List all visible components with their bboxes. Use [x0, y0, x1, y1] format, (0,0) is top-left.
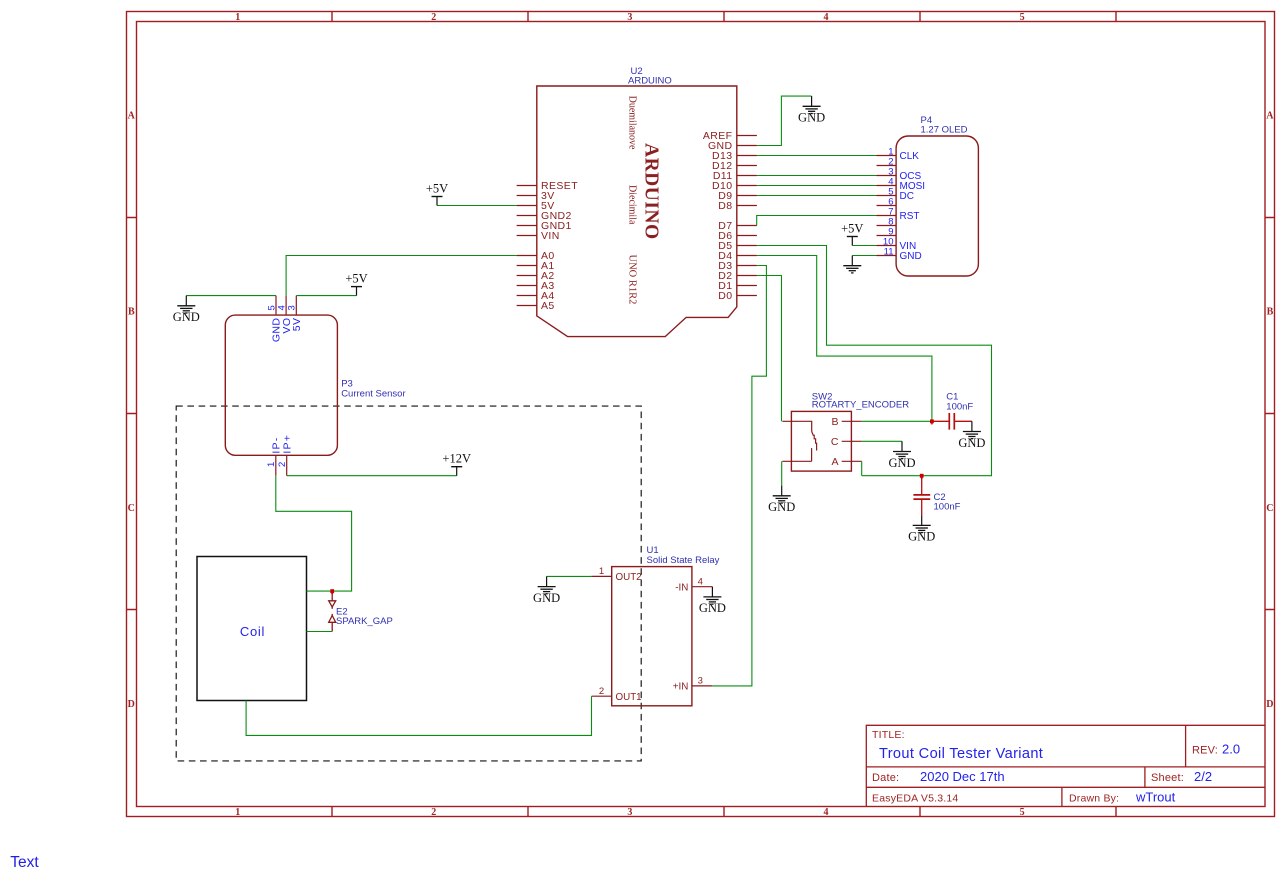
svg-text:wTrout: wTrout — [1135, 790, 1176, 805]
svg-text:Sheet:: Sheet: — [1151, 772, 1184, 784]
ground (U1 -IN) — [703, 587, 721, 604]
svg-text:C: C — [128, 503, 135, 514]
wire SW2 B to C1 junction — [862, 420, 932, 422]
wire SW2 A down to D5 net — [861, 461, 863, 475]
svg-text:+IN: +IN — [673, 682, 689, 693]
svg-text:5: 5 — [1020, 12, 1025, 23]
ground (C2) — [913, 515, 931, 532]
svg-text:4: 4 — [824, 12, 829, 23]
svg-text:+5V: +5V — [841, 222, 863, 236]
power +5V (P4 VIN) — [847, 237, 858, 246]
svg-text:2: 2 — [431, 12, 436, 23]
svg-text:1: 1 — [235, 12, 240, 23]
svg-text:5: 5 — [1020, 807, 1025, 818]
svg-text:1: 1 — [599, 566, 604, 577]
svg-text:CLK: CLK — [900, 151, 920, 162]
svg-text:IP+: IP+ — [281, 434, 293, 454]
svg-text:REV:: REV: — [1192, 745, 1218, 757]
svg-text:1: 1 — [266, 462, 277, 467]
svg-text:Current Sensor: Current Sensor — [341, 389, 405, 400]
wire U2 D7 to P4 pin 7 RST — [757, 216, 877, 226]
svg-text:Diecimila: Diecimila — [627, 185, 638, 225]
svg-text:2: 2 — [431, 807, 436, 818]
svg-text:11: 11 — [884, 247, 894, 258]
wire E2 bottom to Coil — [307, 631, 333, 633]
title block — [866, 725, 1265, 806]
wire U2 D4 to SW2 B net — [757, 256, 932, 422]
svg-text:D: D — [1266, 699, 1273, 710]
junction C1 node — [930, 419, 934, 423]
svg-text:Coil: Coil — [240, 624, 265, 639]
wire P4 pin 10 VIN to +5V — [852, 245, 876, 247]
wire Coil bottom to U1 OUT1 — [246, 696, 591, 735]
wire U2 D5 to SW2 A net — [757, 246, 992, 476]
svg-text:3: 3 — [627, 807, 632, 818]
wire P4 pin 11 GND to ground — [852, 255, 876, 257]
svg-text:D: D — [128, 699, 135, 710]
svg-text:Date:: Date: — [872, 772, 899, 784]
svg-text:1.27 OLED: 1.27 OLED — [921, 125, 968, 136]
svg-text:Trout Coil Tester Variant: Trout Coil Tester Variant — [879, 746, 1043, 762]
svg-text:Drawn By:: Drawn By: — [1069, 793, 1119, 805]
wire SW2 A-side to GND — [781, 461, 783, 485]
svg-text:UNO R1R2: UNO R1R2 — [627, 255, 638, 305]
svg-text:+5V: +5V — [345, 272, 367, 286]
rotary encoder SW2 — [782, 391, 909, 471]
svg-text:SPARK_GAP: SPARK_GAP — [336, 616, 393, 627]
wire U1 OUT2 to GND — [547, 575, 592, 577]
wire P3 pin 2 to +12V — [287, 475, 457, 477]
svg-text:2: 2 — [277, 462, 288, 467]
svg-text:-IN: -IN — [675, 582, 688, 593]
svg-text:2/2: 2/2 — [1194, 769, 1212, 784]
svg-text:1: 1 — [235, 807, 240, 818]
svg-text:DC: DC — [900, 191, 914, 202]
svg-text:C: C — [831, 436, 839, 448]
wire +5V to U2 pin 5V — [437, 205, 517, 207]
svg-text:GND: GND — [699, 601, 726, 615]
svg-text:100nF: 100nF — [934, 502, 961, 513]
svg-text:2020 Dec 17th: 2020 Dec 17th — [920, 769, 1005, 784]
svg-text:A: A — [831, 456, 838, 468]
svg-text:B: B — [128, 307, 135, 318]
svg-text:ARDUINO: ARDUINO — [628, 76, 672, 87]
wire U2 D2 to SW2 common B side — [757, 276, 782, 422]
wire U2 D9 to P4 pin 5 DC — [757, 195, 877, 197]
wire U2 A0 to P3 pin 4 (VO) — [286, 256, 516, 296]
svg-text:+5V: +5V — [426, 182, 448, 196]
svg-text:GND: GND — [908, 530, 935, 544]
svg-text:GND: GND — [958, 436, 985, 450]
svg-text:Text: Text — [10, 854, 39, 871]
power +5V (U2 5V) — [432, 197, 443, 206]
ground (SW2 A-side) — [773, 486, 791, 503]
wire U2 D10 to P4 pin 4 MOSI — [757, 185, 877, 187]
svg-text:GND: GND — [173, 310, 200, 324]
coil block (Coil) — [197, 557, 307, 701]
svg-text:100nF: 100nF — [946, 401, 973, 412]
svg-text:OUT1: OUT1 — [616, 692, 642, 703]
relay U1 Solid State Relay — [592, 545, 720, 706]
wire P3 pin 1 to spark gap node — [276, 476, 352, 591]
svg-text:ROTARTY_ENCODER: ROTARTY_ENCODER — [812, 400, 909, 411]
svg-text:Solid State Relay: Solid State Relay — [647, 555, 720, 566]
microcontroller U2 ARDUINO — [517, 66, 757, 337]
svg-text:+12V: +12V — [442, 452, 471, 466]
svg-text:3: 3 — [287, 305, 298, 310]
svg-text:EasyEDA V5.3.14: EasyEDA V5.3.14 — [872, 793, 958, 805]
svg-text:A5: A5 — [541, 300, 555, 312]
power +12V (P3 IP+) — [451, 467, 462, 476]
svg-text:TITLE:: TITLE: — [872, 729, 905, 741]
svg-text:A: A — [128, 111, 136, 122]
svg-text:2.0: 2.0 — [1222, 742, 1240, 757]
junction C2 node — [920, 474, 924, 478]
svg-text:VIN: VIN — [541, 230, 560, 242]
ground (U2 GND) — [803, 96, 821, 113]
power +5V (P3) — [351, 287, 362, 296]
svg-text:GND: GND — [533, 591, 560, 605]
wire P3 pin 3 to +5V — [296, 295, 356, 297]
ground (P4 pin 11) — [843, 256, 861, 273]
svg-text:ARDUINO: ARDUINO — [641, 143, 662, 240]
svg-text:RST: RST — [900, 211, 920, 222]
capacitor C1 100nF — [932, 392, 974, 430]
connector P3 Current Sensor — [225, 296, 405, 476]
svg-text:2: 2 — [599, 686, 604, 697]
dashed enclosure box — [176, 406, 641, 761]
svg-text:C: C — [1266, 503, 1273, 514]
ground (SW2 C) — [893, 441, 911, 458]
svg-text:GND: GND — [768, 500, 795, 514]
svg-text:B: B — [1267, 307, 1274, 318]
capacitor C2 100nF — [913, 476, 960, 516]
wire U2 GND to ground — [757, 96, 812, 145]
wire U2 D11 to P4 pin 3 OCS — [757, 175, 877, 177]
wire U2 D13 to P4 pin 1 CLK — [757, 155, 877, 157]
svg-text:D8: D8 — [718, 200, 732, 212]
svg-text:OUT2: OUT2 — [616, 572, 642, 583]
svg-text:A: A — [1266, 111, 1274, 122]
svg-text:D0: D0 — [718, 290, 732, 302]
svg-text:5V: 5V — [291, 318, 303, 332]
svg-text:3: 3 — [698, 676, 703, 687]
svg-text:3: 3 — [627, 12, 632, 23]
connector P4 1.27 OLED — [877, 115, 979, 276]
svg-text:B: B — [831, 416, 838, 428]
wire U2 D3 to U1 +IN — [712, 266, 766, 686]
junction E2 top node — [330, 589, 334, 593]
svg-text:GND: GND — [798, 111, 825, 125]
ground (C1) — [963, 421, 981, 438]
wire SW2 C to GND — [862, 440, 902, 442]
svg-text:4: 4 — [824, 807, 829, 818]
svg-text:Duemilanove: Duemilanove — [627, 96, 638, 150]
ground (U1 OUT2) — [538, 576, 556, 593]
svg-text:GND: GND — [900, 251, 922, 262]
svg-text:4: 4 — [698, 577, 703, 588]
spark gap E2 — [329, 591, 393, 631]
svg-text:GND: GND — [888, 456, 915, 470]
wire P3 pin 5 to GND — [186, 295, 276, 297]
ground (P3 pin 5) — [177, 296, 195, 313]
